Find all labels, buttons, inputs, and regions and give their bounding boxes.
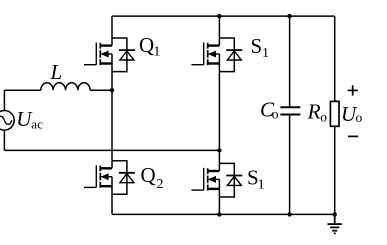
label Uac (16, 107, 43, 131)
wire bottom rail (112, 213, 335, 215)
svg-text:Q: Q (139, 33, 154, 57)
wire Q-leg middle (Q1 source to Q2 drain, crosses return wire) (111, 64, 113, 161)
junction dot top rail / capacitor branch (287, 14, 291, 18)
wire S-leg top (top rail to S1 drain) (218, 16, 220, 38)
svg-text:o: o (320, 109, 327, 124)
resistor Ro body (330, 101, 339, 126)
svg-text:2: 2 (157, 177, 164, 192)
junction dot bottom rail / capacitor branch (287, 212, 291, 216)
body diode of S1 lower (219, 163, 242, 197)
junction dot bottom rail / S-leg (217, 212, 221, 216)
wire left rail upper (3, 90, 5, 110)
junction dot top rail / S-leg (217, 14, 221, 18)
svg-text:o: o (272, 107, 279, 122)
body diode of Q1 (112, 38, 135, 72)
wire right branch lower (resistor to bottom rail) (334, 126, 336, 214)
svg-text:L: L (50, 60, 63, 84)
wire input return (ac source to node B) (4, 149, 219, 151)
plus sign (output polarity) (348, 85, 358, 95)
wire Q-leg top (top rail to Q1 drain) (111, 16, 113, 38)
wire inductor to node A (90, 89, 112, 91)
svg-text:Q: Q (141, 163, 156, 187)
wire left rail lower (3, 130, 5, 150)
label Q1 (139, 33, 160, 60)
wire input upper (ac source to inductor) (4, 89, 40, 91)
label S1 lower (247, 166, 265, 193)
label Uo (341, 102, 363, 126)
ac source Uac (0, 111, 14, 131)
inductor L (41, 83, 90, 90)
junction dot bottom rail / ground (333, 212, 337, 216)
body diode of S1 upper (219, 38, 242, 72)
transistor S1 (upper) (191, 38, 219, 65)
wire right branch upper (to resistor Ro) (334, 16, 336, 101)
label Q2 (141, 163, 164, 192)
node A junction dot (inductor / Q-leg midpoint) (110, 88, 114, 92)
body diode of Q2 (112, 161, 135, 195)
label S1 upper (251, 34, 270, 61)
wire S-leg bottom (lower S1 source to bottom rail) (218, 189, 220, 215)
ground (328, 214, 342, 233)
svg-text:1: 1 (262, 46, 269, 61)
wire capacitor branch upper (289, 16, 291, 106)
svg-text:1: 1 (258, 178, 265, 193)
transistor Q2 (84, 161, 112, 188)
svg-text:o: o (356, 110, 363, 125)
svg-text:S: S (251, 34, 263, 58)
transistor Q1 (84, 38, 112, 65)
svg-text:R: R (307, 100, 321, 124)
capacitor Co plates (280, 107, 300, 114)
transistor S1 (lower) (191, 163, 219, 190)
wire top rail (112, 15, 335, 17)
svg-text:1: 1 (153, 45, 160, 60)
svg-text:ac: ac (31, 116, 43, 131)
label Co (260, 98, 279, 122)
wire capacitor branch lower (289, 116, 291, 215)
node B junction dot (return wire / S-leg midpoint) (217, 148, 221, 152)
label Ro (307, 100, 328, 125)
wire Q-leg bottom (Q2 source to bottom rail) (111, 186, 113, 214)
minus sign (output polarity) (348, 135, 358, 137)
wire S-leg middle (S1 source to node B) (218, 64, 220, 164)
